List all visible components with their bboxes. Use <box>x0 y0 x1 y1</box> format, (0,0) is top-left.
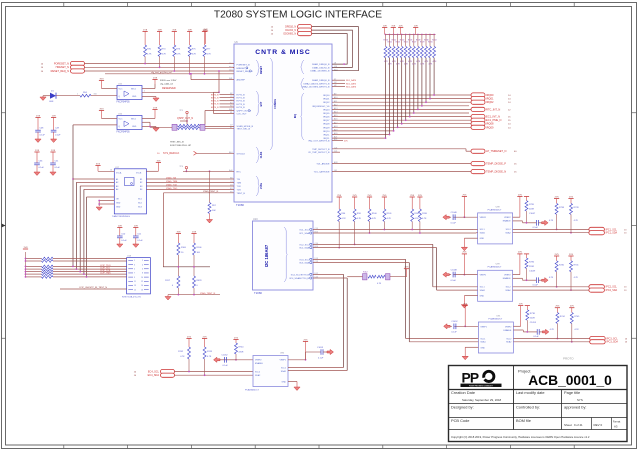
power symbol 1V8 COP bus <box>23 248 28 250</box>
resistor network RN1 pads <box>172 124 177 130</box>
svg-text:4.7K: 4.7K <box>574 329 579 331</box>
U10 internal brace <box>284 227 287 282</box>
svg-text:220R: 220R <box>239 351 244 353</box>
wire IRQ row 1 from U6 <box>332 98 471 100</box>
wire IIC2_SCL U10 to U99 <box>313 243 433 245</box>
svg-text:SD1_DAT6: SD1_DAT6 <box>346 85 357 88</box>
svg-text:SCL1: SCL1 <box>281 368 287 370</box>
svg-text:DMA2_DDONE0_B/EVT6_B: DMA2_DDONE0_B/EVT6_B <box>302 86 330 89</box>
wire pullup column to IRQ row 0 <box>433 58 435 95</box>
resistor R678 0 <box>193 276 196 288</box>
svg-text:PCA9306DCT: PCA9306DCT <box>488 317 503 320</box>
resistor R97 10K <box>209 171 211 202</box>
svg-text:16: 16 <box>141 289 143 291</box>
svg-text:C1053: C1053 <box>317 347 324 349</box>
svg-text:SYS: SYS <box>577 398 583 402</box>
svg-text:CLKS: CLKS <box>260 151 263 158</box>
wire DREQ0_N route to U6 DMA1_DREQ0_B <box>312 27 359 71</box>
svg-text:0.1uF: 0.1uF <box>121 240 127 242</box>
ground subcircuit 2 <box>464 237 477 239</box>
svg-text:IRQ09: IRQ09 <box>486 125 494 129</box>
resistor network R112 <box>363 274 368 280</box>
svg-text:0.1uF: 0.1uF <box>39 167 45 169</box>
wire HRESET_N to U6 <box>85 66 235 68</box>
svg-text:Page title: Page title <box>564 390 580 395</box>
svg-text:Creation Date: Creation Date <box>451 390 475 395</box>
svg-text:IRQ02: IRQ02 <box>323 102 330 104</box>
svg-text:4.7K: 4.7K <box>549 277 554 279</box>
power symbol 1V8 right of U16 <box>152 109 157 111</box>
off-page connector oval IPC1 SCL <box>589 227 605 231</box>
svg-text:EVT2_B: EVT2_B <box>237 101 246 103</box>
svg-text:SCL2: SCL2 <box>506 229 512 231</box>
pull-up resistor R740 4.7K <box>554 255 559 257</box>
svg-text:10K: 10K <box>212 210 216 212</box>
frame zone ticks top edge <box>63 3 65 7</box>
svg-text:SCL1: SCL1 <box>480 338 486 340</box>
wire IRQ row 2 from U6 <box>332 101 471 103</box>
U96 VREF1 to power and C1053 <box>288 359 306 361</box>
svg-text:IRQ09: IRQ09 <box>323 127 330 129</box>
pull-up resistor R744 4.7K <box>555 307 560 309</box>
wire TD1_CATHODE to oval <box>332 171 471 173</box>
svg-text:0.1uF: 0.1uF <box>55 167 61 169</box>
ground TRST network <box>167 295 169 297</box>
svg-text:R745: R745 <box>574 316 580 318</box>
svg-text:4.7K: 4.7K <box>414 218 419 220</box>
power symbol 1V8 for C50 <box>117 227 122 229</box>
svg-text:R729: R729 <box>420 42 425 44</box>
svg-text:A1: A1 <box>116 178 118 181</box>
IC U16 FXCPS4P05 block <box>117 116 142 130</box>
svg-text:ENABLE: ENABLE <box>503 277 512 280</box>
off-page connector oval LP_TMRESET_N <box>471 149 485 153</box>
wire pullup column to IRQ row 6 <box>409 58 411 117</box>
power symbol 2V5 top-right bank <box>398 27 403 29</box>
wire IIC4_SDA U10 to U96 <box>313 277 347 279</box>
svg-text:IIC3_SDA: IIC3_SDA <box>299 262 309 265</box>
svg-text:VREF2: VREF2 <box>504 275 511 277</box>
svg-text:IRQ06: IRQ06 <box>323 117 330 119</box>
wire vertical JTAG chain x86.5 <box>86 197 88 277</box>
ground below R97 <box>209 214 211 220</box>
pull-up resistor R107 4.7K <box>411 209 414 222</box>
svg-text:IRQ10: IRQ10 <box>323 131 330 133</box>
capacitor C48 0.1uF <box>35 129 41 131</box>
resistor R76 4.7K pullup <box>173 45 176 57</box>
wire COP row 4 <box>26 268 42 270</box>
svg-text:1: 1 <box>134 260 135 262</box>
svg-text:SCL2: SCL2 <box>255 372 261 374</box>
resistor R102 COP series <box>42 265 54 268</box>
svg-text:SEC1: SEC1 <box>131 89 136 91</box>
junction DMA1 pin row <box>343 63 345 65</box>
off-page connector oval IPC1 SDA <box>589 231 605 235</box>
svg-text:C1048: C1048 <box>451 269 458 271</box>
svg-text:4.7K: 4.7K <box>550 329 555 331</box>
svg-text:GND: GND <box>480 347 485 349</box>
power symbol 2V5 for R110 <box>417 196 422 198</box>
junction dots on power rail <box>385 34 387 36</box>
svg-text:ASLEEP: ASLEEP <box>237 79 246 82</box>
capacitor C1052 left of U911 <box>463 305 468 307</box>
resistor R744 220R <box>233 339 238 341</box>
svg-text:VCC: VCC <box>119 89 124 91</box>
svg-text:3: 3 <box>134 264 135 266</box>
svg-text:EC4_SDA: EC4_SDA <box>148 374 160 377</box>
power symbol 2V5 for R107 <box>410 196 415 198</box>
svg-text:0.1uF: 0.1uF <box>223 365 229 367</box>
svg-text:Copyright (C) 2018 2019, Power: Copyright (C) 2018 2019, Power Progress … <box>451 435 590 439</box>
svg-text:EVT1_N: EVT1_N <box>211 97 219 99</box>
svg-text:0.1uF: 0.1uF <box>451 280 457 282</box>
svg-text:G9N: G9N <box>49 101 54 103</box>
svg-text:Format: Format <box>613 421 621 424</box>
off-page connector oval IRQ01 <box>471 97 485 101</box>
svg-text:Sheet: Sheet <box>564 423 572 427</box>
wire cfg_test bus <box>105 73 234 75</box>
svg-text:SDA1: SDA1 <box>480 232 486 235</box>
power symbol 2V5 for R100 <box>367 196 372 198</box>
off-page arrow left subcircuit 3 <box>443 272 450 277</box>
off-page connector oval IRQ00 <box>471 93 485 97</box>
wire RESET_REQ_N to U6 <box>85 70 235 72</box>
wire SCL2 to oval subcircuit 5 <box>513 338 589 340</box>
svg-text:R744: R744 <box>239 347 245 349</box>
svg-text:EVT4_N: EVT4_N <box>211 107 219 109</box>
off-page connector oval DREQ0_N <box>298 25 312 29</box>
resistor R106 100 <box>193 243 196 255</box>
svg-text:U10: U10 <box>253 218 258 221</box>
svg-text:VREF2: VREF2 <box>255 360 262 362</box>
wires U17 A-side pins to verticals <box>73 178 114 180</box>
svg-text:8: 8 <box>142 273 143 275</box>
svg-text:IRQ_OUT_B/EVT9_B: IRQ_OUT_B/EVT9_B <box>308 141 330 143</box>
resistor R738 220R <box>526 306 528 310</box>
svg-text:0.1uF: 0.1uF <box>55 134 61 136</box>
svg-text:ENABLE: ENABLE <box>503 220 512 223</box>
frame zone ticks right edge <box>632 112 637 114</box>
wire SCL2 to oval subcircuit 3 <box>513 286 589 288</box>
svg-text:TEST_SEL_B: TEST_SEL_B <box>237 129 251 131</box>
U6 internal group brace DMA1 <box>301 60 304 74</box>
svg-text:DREQ0_N: DREQ0_N <box>285 27 296 29</box>
pull-up resistor R743 4.7K <box>202 338 207 340</box>
wire COP row 3 to header <box>53 265 127 267</box>
svg-text:IRQ02: IRQ02 <box>486 100 494 104</box>
svg-text:QSPP_OUT_N: QSPP_OUT_N <box>177 117 193 120</box>
header U18 pin stubs <box>128 260 133 262</box>
svg-text:4.7K: 4.7K <box>207 54 212 56</box>
wire TP1 junction <box>186 120 188 122</box>
wire R744 to U96 VREF2 <box>236 359 253 361</box>
resistor R94 <box>80 94 91 97</box>
ground subcircuit 3 <box>464 295 477 297</box>
svg-text:TEMP_DIODE_P: TEMP_DIODE_P <box>486 162 506 166</box>
svg-text:RESET: RESET <box>260 65 263 74</box>
power symbol 1V8 for R75 <box>187 31 192 33</box>
junction R76 on bus <box>173 70 175 72</box>
wire SCL2 to oval subcircuit 2 <box>513 228 589 230</box>
ground for C48 <box>37 132 39 139</box>
svg-text:R738: R738 <box>530 313 536 315</box>
svg-text:0.1uF: 0.1uF <box>533 284 539 286</box>
capacitor C49 0.1uF <box>51 129 57 131</box>
EVT pin stub wires <box>220 94 235 96</box>
pull-up resistor R739 4.7K <box>568 198 573 200</box>
wire IRQ row 12 from U6 <box>332 137 386 139</box>
svg-text:RESET_REQ_N: RESET_REQ_N <box>51 70 70 73</box>
svg-text:JTAG_TRST_N: JTAG_TRST_N <box>200 292 216 295</box>
svg-text:JTAG_TDO: JTAG_TDO <box>166 187 178 190</box>
frame zone ticks left edge <box>2 112 6 114</box>
svg-text:VREF1: VREF1 <box>480 275 487 277</box>
svg-text:IIC4_SDA/EVT10_B: IIC4_SDA/EVT10_B <box>289 277 309 280</box>
svg-text:NC2: NC2 <box>138 203 142 205</box>
svg-text:R107: R107 <box>414 213 420 215</box>
svg-text:SDA1: SDA1 <box>281 370 287 373</box>
title block outer box <box>449 366 628 442</box>
off-page arrow left subcircuit 2 <box>443 215 450 220</box>
svg-text:4.7K: 4.7K <box>422 218 427 220</box>
svg-text:JTAG_TCK: JTAG_TCK <box>166 183 178 186</box>
wire TRST network mid <box>177 255 179 276</box>
ground for C49 <box>53 132 55 139</box>
wire vertical x191 to ASLEEP <box>190 74 192 80</box>
svg-text:ACB_0001_0: ACB_0001_0 <box>528 373 612 388</box>
power for R112 <box>404 268 409 270</box>
svg-text:SCL1: SCL1 <box>480 287 486 289</box>
svg-text:VREF1: VREF1 <box>280 360 287 362</box>
svg-text:GND: GND <box>116 203 121 205</box>
off-page connector oval IPC2 SDA <box>589 288 605 292</box>
svg-text:TMP_DETECT_B: TMP_DETECT_B <box>312 149 330 151</box>
svg-text:cfg_sddd_sel: cfg_sddd_sel <box>160 84 173 86</box>
svg-text:4.7K: 4.7K <box>162 54 167 56</box>
capacitor C1047 <box>526 211 528 223</box>
junction R70 on bus <box>144 63 146 65</box>
svg-text:R110: R110 <box>422 213 428 215</box>
svg-text:C1049: C1049 <box>529 270 536 272</box>
resistor R70 4.7K pullup <box>144 45 147 57</box>
wire VREF2 up to power subcircuit 5 <box>513 325 520 327</box>
wire IRQ row 9 from U6 <box>332 126 471 128</box>
power symbol 1V8 for C51 <box>50 151 55 153</box>
svg-text:PORESET_N: PORESET_N <box>54 62 69 65</box>
svg-text:R100: R100 <box>181 247 187 249</box>
wire COP row 2 to header <box>53 260 127 262</box>
off-page connector oval IRQ08 <box>471 122 485 126</box>
off-page connector oval TEMP_DIODE_P <box>471 162 485 166</box>
IC U10 I2C block body <box>253 221 314 290</box>
svg-text:5: 5 <box>134 269 135 271</box>
IC U96 PCA9306DCT body (mirrored) <box>253 356 288 387</box>
capacitor C51 0.1uF near U18 <box>133 235 139 237</box>
svg-text:220R: 220R <box>530 318 535 320</box>
svg-text:4.7K: 4.7K <box>574 277 579 279</box>
svg-text:POWER PROGRESS COMMUNITY: POWER PROGRESS COMMUNITY <box>469 385 493 387</box>
svg-text:GND: GND <box>132 126 137 128</box>
capacitor C1049 <box>526 269 528 281</box>
junction R77 on bus <box>204 73 206 75</box>
svg-text:DMA2_DACK0_B/EVT5_B: DMA2_DACK0_B/EVT5_B <box>303 83 330 86</box>
wire vertical x219 tap <box>218 71 220 92</box>
junction R97 on RTC wire <box>209 170 211 172</box>
svg-text:IRQ01: IRQ01 <box>486 97 494 101</box>
wire COP row 6 <box>26 273 42 275</box>
svg-text:C1052: C1052 <box>451 321 458 323</box>
COP series resistors left bus <box>25 252 27 277</box>
off-page arrow right subcircuit 3 <box>542 278 549 283</box>
svg-text:TD1_ANODE: TD1_ANODE <box>316 163 330 166</box>
power symbol 1V8 for R74 <box>157 31 162 33</box>
wire VREF2 up to power subcircuit 3 <box>513 274 520 276</box>
wire IRQ row 6 from U6 <box>332 116 471 118</box>
svg-text:TCK: TCK <box>237 186 242 188</box>
svg-text:SDA2: SDA2 <box>255 374 261 377</box>
svg-text:B3: B3 <box>140 186 142 188</box>
svg-text:EVT4_B: EVT4_B <box>237 107 246 109</box>
wire IRQ row 3 from U6 <box>332 105 469 107</box>
ground for C50 <box>119 238 121 244</box>
ground for C36 <box>36 165 38 172</box>
svg-text:GND: GND <box>480 296 485 298</box>
svg-text:TEMP_DIODE_N: TEMP_DIODE_N <box>486 170 506 174</box>
svg-text:TD1_CATHODE: TD1_CATHODE <box>314 171 330 174</box>
svg-text:IRQ08: IRQ08 <box>486 122 494 126</box>
svg-text:220R: 220R <box>529 209 534 211</box>
wire CF_TMP stub <box>332 151 340 153</box>
power symbol 1V8 top-right bank <box>382 27 387 29</box>
resistor R736 220R <box>526 254 528 258</box>
wire IRQ_OUT stub <box>332 140 343 142</box>
wire IIC2_SDA U10 to U99 <box>313 247 437 249</box>
svg-text:NC3: NC3 <box>138 207 142 209</box>
wire R74 to reset bus <box>159 57 161 68</box>
wire IRQ row 5 from U6 <box>332 112 469 114</box>
off-page connector oval EC4_SCL <box>161 369 175 373</box>
svg-text:R727: R727 <box>412 42 417 44</box>
wire U15 right pins <box>142 88 155 90</box>
svg-text:A2: A2 <box>116 181 118 184</box>
resistor R106 COP series <box>42 276 54 279</box>
wire R70 to reset bus <box>144 57 146 64</box>
wire JTAG_TDO U17 to U6 <box>146 188 234 190</box>
svg-text:EVT1_B: EVT1_B <box>237 98 246 100</box>
wire COP row 5 <box>26 271 42 273</box>
svg-text:R744: R744 <box>560 316 566 318</box>
svg-text:JTAG: JTAG <box>260 183 263 189</box>
svg-text:SCL2: SCL2 <box>506 338 512 340</box>
svg-text:SDA2: SDA2 <box>505 232 511 235</box>
test point TP4 <box>185 166 187 168</box>
svg-text:JTAG_TMS: JTAG_TMS <box>166 180 178 183</box>
IC U17 74AVC16245 block body <box>114 169 146 214</box>
wire SYS_REFCLK to U6 SYSCLK <box>197 152 235 154</box>
off-page connector oval HRESET_N <box>71 65 85 69</box>
svg-text:220R: 220R <box>529 266 534 268</box>
svg-text:PROTO: PROTO <box>563 357 574 361</box>
resistor R103 COP series <box>42 268 54 271</box>
ground for C51 <box>135 238 137 244</box>
U6 internal group brace DMA2 <box>301 78 304 90</box>
wire IIC3_SCL U10 to U91 <box>313 258 406 260</box>
svg-text:T2080: T2080 <box>236 203 244 207</box>
wire RN1 to U6 SCAN/TEST pins <box>205 126 234 128</box>
svg-text:GND: GND <box>132 96 137 98</box>
wire COP chkstp row <box>60 288 127 290</box>
wire JTAG_TMS U17 to U6 <box>146 181 234 183</box>
junction R74 on bus <box>159 66 161 68</box>
svg-text:NC1: NC1 <box>138 199 142 201</box>
svg-text:A3: A3 <box>614 425 618 429</box>
wire IIC3_SDA U10 to U91 <box>313 262 409 264</box>
resistor R105 COP series <box>42 273 54 276</box>
svg-text:VREF2: VREF2 <box>505 326 512 328</box>
ground for U15 <box>142 96 156 98</box>
svg-text:EVT2_N: EVT2_N <box>211 101 219 103</box>
svg-text:RESERVED: RESERVED <box>162 87 176 90</box>
svg-text:IPC2_SDA: IPC2_SDA <box>606 289 618 292</box>
svg-text:VREF2: VREF2 <box>504 217 511 219</box>
resistor R117 0 <box>177 276 180 288</box>
wire DDONE0_N route to U6 DMA1_DDONE0_B <box>312 34 347 65</box>
IC U6 CNTR & MISC block body <box>234 44 332 202</box>
svg-text:IIC4_SCL/EVT9_B: IIC4_SCL/EVT9_B <box>291 274 310 276</box>
wire COP row 1 <box>26 258 42 260</box>
svg-text:COP_TDO: COP_TDO <box>100 265 111 267</box>
ground symbol at D1 <box>43 95 50 97</box>
svg-text:SCAN_MODE_B: SCAN_MODE_B <box>237 125 254 128</box>
svg-text:12: 12 <box>141 281 143 283</box>
capacitor C1053 <box>526 320 528 332</box>
svg-text:IRQ01: IRQ01 <box>323 99 330 101</box>
wire pullup column to IRQ row 8 <box>401 58 403 124</box>
wire CLK_OUT stub <box>214 113 235 115</box>
svg-text:IPC1_SDA: IPC1_SDA <box>606 232 618 235</box>
svg-text:4.7K: 4.7K <box>180 356 185 358</box>
svg-text:SCL2: SCL2 <box>506 287 512 289</box>
off-page connector oval IPC3 SDA <box>590 340 606 344</box>
svg-text:R741: R741 <box>574 264 580 266</box>
svg-text:IRQ08: IRQ08 <box>323 124 330 126</box>
wire COP row 2 <box>26 260 42 262</box>
svg-text:FXCPS4P05: FXCPS4P05 <box>117 102 131 104</box>
resistor R100 10 <box>177 243 180 255</box>
svg-text:DMA1_DREQ0_B: DMA1_DREQ0_B <box>312 63 330 66</box>
wire VREF2 up to power subcircuit 2 <box>513 216 520 218</box>
wire pullup column to IRQ row 7 <box>405 58 407 120</box>
svg-text:6: 6 <box>142 269 143 271</box>
svg-text:IIC2_SCL: IIC2_SCL <box>300 244 310 246</box>
U6 internal group brace JTAG <box>256 176 259 196</box>
power symbol 1V8 for R106 <box>191 233 196 235</box>
svg-text:Controlled by:: Controlled by: <box>516 405 540 410</box>
svg-text:B4: B4 <box>140 189 142 191</box>
wire IIC1_SCL U10 to U98 <box>313 229 473 231</box>
wire QSPP_OUT row to U6 <box>205 110 234 112</box>
svg-text:R739: R739 <box>574 207 580 209</box>
IC U99 PCA9306DCT body <box>478 270 513 301</box>
pull-up resistor R101 4.7K <box>383 209 386 222</box>
svg-text:4.7K: 4.7K <box>192 54 197 56</box>
svg-text:B2: B2 <box>140 182 142 184</box>
off-page connector oval TEMP_DIODE_N <box>471 170 485 174</box>
wire D1 to R94 <box>56 95 80 97</box>
frame zone ticks bottom edge <box>63 445 65 449</box>
off-page connector oval EC1_INT_N <box>471 115 485 119</box>
wire IRQ row 11 from U6 <box>332 134 390 136</box>
